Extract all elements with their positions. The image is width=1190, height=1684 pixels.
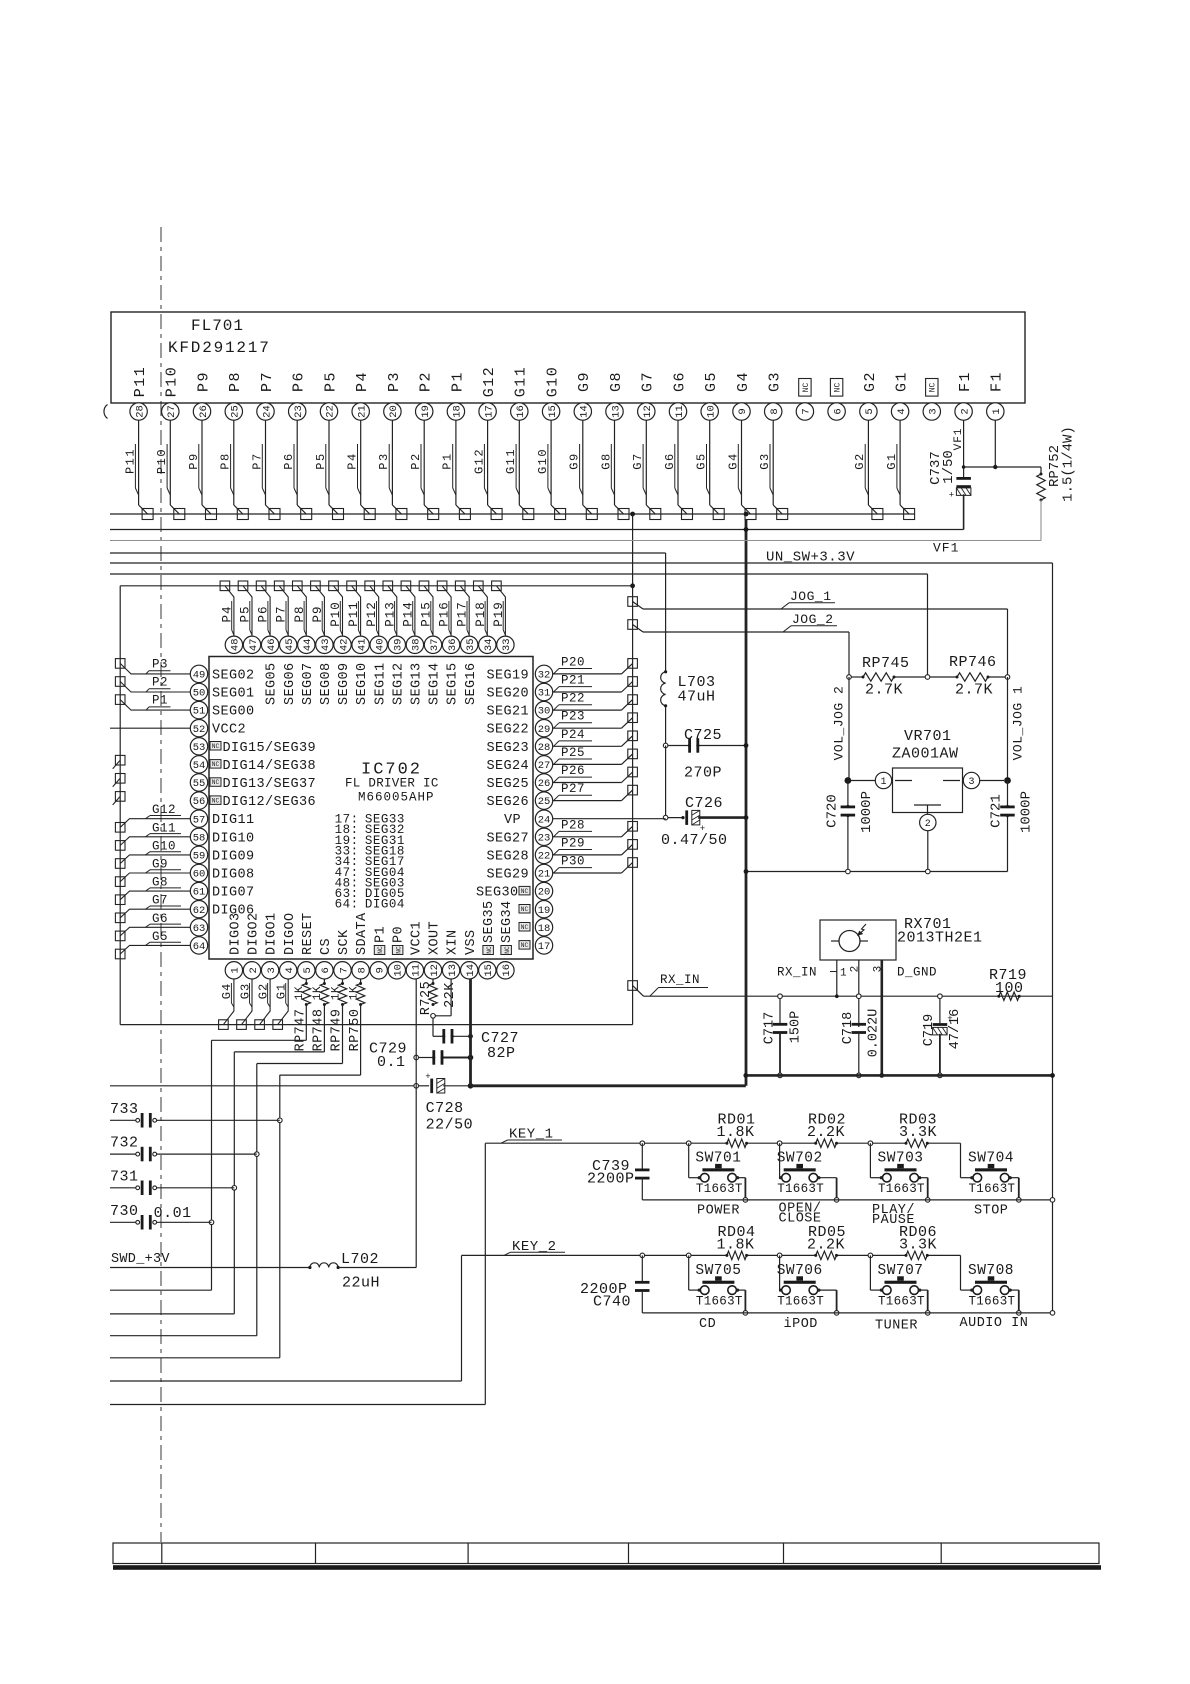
svg-text:P26: P26 bbox=[561, 764, 585, 778]
svg-text:VCC2: VCC2 bbox=[212, 723, 246, 738]
IC702 pin 58 DIG10 bbox=[190, 828, 254, 846]
capacitor C727 82P bbox=[433, 1018, 519, 1062]
net P3 to IC702 pin 49 bbox=[115, 657, 190, 674]
svg-text:P7: P7 bbox=[275, 605, 289, 622]
net P20 to IC702 pin 32 bbox=[553, 655, 638, 674]
net label RX_IN at connector bbox=[628, 973, 708, 996]
net G8 to IC702 pin 61 bbox=[115, 876, 190, 905]
svg-text:SEG28: SEG28 bbox=[486, 849, 529, 864]
svg-text:2.2K: 2.2K bbox=[807, 1124, 845, 1141]
svg-text:NC: NC bbox=[212, 761, 220, 768]
svg-text:NC: NC bbox=[521, 906, 529, 913]
svg-text:3: 3 bbox=[266, 967, 278, 973]
svg-text:12: 12 bbox=[429, 964, 441, 977]
IC702 pin 36 top bbox=[442, 636, 460, 705]
svg-text:12: 12 bbox=[642, 405, 654, 418]
IC702 pin 49 SEG02 bbox=[190, 665, 254, 683]
IC702 pin 23 SEG27 bbox=[486, 828, 552, 846]
IC702 pin 7 SCK bbox=[334, 929, 352, 979]
svg-text:730: 730 bbox=[110, 1203, 139, 1220]
IC702 pin 31 SEG20 bbox=[486, 683, 552, 701]
IC702 pin 16 SEG34 bbox=[497, 900, 515, 979]
IC702 pin 32 SEG19 bbox=[486, 665, 552, 683]
IC702 pin 54 DIG14/SEG38 bbox=[190, 756, 316, 774]
FL701 pin 6 NC bbox=[828, 379, 845, 421]
wire RP745/RP746 mid feed bus bbox=[110, 574, 928, 677]
FL701 pin 26 P9 bbox=[187, 371, 217, 520]
svg-text:55: 55 bbox=[193, 778, 206, 790]
key caption POWER bbox=[697, 1204, 740, 1219]
svg-text:1: 1 bbox=[991, 408, 1003, 414]
svg-text:DIG08: DIG08 bbox=[212, 868, 255, 883]
net P9 to IC702 pin 43 bbox=[311, 581, 325, 636]
svg-text:C720: C720 bbox=[825, 794, 841, 828]
svg-text:F1: F1 bbox=[957, 371, 974, 392]
IC702 pin 12 XOUT bbox=[424, 921, 442, 979]
net G3 to IC702 pin 2 bbox=[237, 979, 253, 1029]
svg-text:DIG11: DIG11 bbox=[212, 813, 255, 828]
FL701 pin 3 NC bbox=[923, 379, 940, 421]
wire C737 return bus bbox=[110, 527, 964, 532]
wire L703 to C726 bbox=[665, 746, 667, 818]
net JOG_2 bbox=[628, 612, 849, 677]
svg-text:20: 20 bbox=[388, 405, 400, 418]
svg-text:L702: L702 bbox=[341, 1251, 379, 1268]
svg-text:VOL_JOG 2: VOL_JOG 2 bbox=[832, 686, 847, 761]
svg-text:+: + bbox=[949, 491, 954, 501]
svg-text:1K: 1K bbox=[312, 986, 324, 1000]
svg-text:SDATA: SDATA bbox=[355, 912, 370, 955]
svg-text:NC: NC bbox=[486, 946, 493, 954]
svg-text:39: 39 bbox=[393, 638, 405, 651]
svg-text:P14: P14 bbox=[401, 601, 415, 627]
svg-text:82P: 82P bbox=[487, 1045, 516, 1062]
svg-text:3.3K: 3.3K bbox=[899, 1124, 937, 1141]
svg-text:RX_IN: RX_IN bbox=[777, 966, 817, 980]
svg-text:15: 15 bbox=[483, 964, 495, 977]
svg-text:T1663T: T1663T bbox=[969, 1182, 1016, 1196]
svg-text:2200P: 2200P bbox=[587, 1171, 635, 1188]
svg-text:P1: P1 bbox=[152, 694, 168, 708]
net P14 to IC702 pin 38 bbox=[401, 581, 415, 636]
svg-text:P5: P5 bbox=[239, 605, 253, 622]
svg-text:DIG13/SEG37: DIG13/SEG37 bbox=[223, 777, 317, 792]
svg-text:P10: P10 bbox=[329, 601, 343, 627]
svg-text:VCC1: VCC1 bbox=[410, 921, 425, 955]
FL701 pin 21 P4 bbox=[346, 371, 376, 520]
svg-text:G1: G1 bbox=[894, 371, 911, 392]
svg-text:29: 29 bbox=[538, 724, 551, 736]
IC702 pin 50 SEG01 bbox=[190, 683, 254, 701]
svg-text:P8: P8 bbox=[293, 605, 307, 622]
svg-text:C728: C728 bbox=[426, 1100, 464, 1117]
resistor RD04 1.8K bbox=[717, 1224, 756, 1260]
net label VOL_JOG 1 bbox=[1011, 686, 1026, 761]
svg-text:64:: 64: bbox=[335, 898, 359, 912]
svg-text:SEG29: SEG29 bbox=[486, 868, 529, 883]
svg-text:14: 14 bbox=[465, 964, 477, 977]
svg-text:TUNER: TUNER bbox=[875, 1319, 918, 1334]
svg-text:733: 733 bbox=[110, 1101, 139, 1118]
svg-text:G4: G4 bbox=[220, 983, 234, 999]
IC702 pin 8 SDATA bbox=[352, 912, 370, 979]
IC702 pin 60 DIG08 bbox=[190, 864, 254, 882]
wire VCC2 (IC702 pin 52) bbox=[110, 727, 190, 729]
svg-text:P19: P19 bbox=[492, 601, 506, 627]
svg-text:1: 1 bbox=[230, 967, 242, 973]
IC702 pin 53 DIG15/SEG39 bbox=[190, 738, 316, 756]
svg-text:1000P: 1000P bbox=[859, 791, 875, 833]
svg-text:G7: G7 bbox=[640, 371, 657, 392]
svg-text:38: 38 bbox=[411, 638, 423, 651]
svg-text:SEG14: SEG14 bbox=[428, 662, 443, 705]
svg-text:SEG09: SEG09 bbox=[337, 662, 352, 705]
FL701 pin 5 G2 bbox=[853, 371, 883, 520]
IC702 pin 46 top bbox=[261, 636, 279, 705]
svg-text:C721: C721 bbox=[989, 794, 1005, 828]
IC702 pin 24 VP bbox=[504, 810, 553, 828]
FL701 pin 22 P5 bbox=[314, 371, 344, 520]
capacitor C725 270P bbox=[663, 727, 748, 782]
key caption PLAY/ PAUSE bbox=[872, 1203, 915, 1228]
svg-text:35: 35 bbox=[465, 638, 477, 651]
net P8 to IC702 pin 44 bbox=[293, 581, 307, 636]
wire FL701 connector rail bbox=[110, 512, 915, 517]
IC702 pin 4 DIGOO bbox=[280, 912, 298, 979]
svg-text:25: 25 bbox=[230, 405, 242, 418]
svg-text:G3: G3 bbox=[238, 983, 252, 999]
svg-text:56: 56 bbox=[193, 796, 206, 808]
svg-text:0.01: 0.01 bbox=[154, 1205, 192, 1222]
svg-text:45: 45 bbox=[284, 638, 296, 651]
net SWD_+3V with inductor L702 22uH bbox=[110, 1251, 416, 1292]
resistor RD03 3.3K bbox=[899, 1112, 937, 1148]
IC702 pin 26 SEG25 bbox=[486, 774, 552, 792]
svg-text:2.7K: 2.7K bbox=[955, 682, 993, 699]
svg-text:POWER: POWER bbox=[697, 1204, 740, 1219]
svg-text:VF1: VF1 bbox=[933, 541, 959, 556]
net JOG_1 bbox=[628, 589, 1008, 677]
svg-text:DIG07: DIG07 bbox=[212, 886, 255, 901]
net G11 to IC702 pin 58 bbox=[115, 821, 190, 850]
svg-text:NC: NC bbox=[521, 942, 529, 949]
IC702 pin 55 DIG13/SEG37 bbox=[190, 774, 316, 792]
key caption OPEN/ CLOSE bbox=[779, 1202, 822, 1227]
IC702 pin 57 DIG11 bbox=[190, 810, 254, 828]
svg-text:P9: P9 bbox=[311, 605, 325, 622]
resistor RP745 2.7K bbox=[847, 655, 930, 699]
IC702 pin 56 DIG12/SEG36 bbox=[190, 792, 316, 810]
svg-text:2013TH2E1: 2013TH2E1 bbox=[897, 930, 983, 947]
IC702 pin 38 top bbox=[406, 636, 424, 705]
IC702 pin 43 top bbox=[316, 636, 334, 705]
FL701 pin 13 G8 bbox=[599, 371, 629, 520]
svg-text:P16: P16 bbox=[438, 601, 452, 627]
svg-text:15: 15 bbox=[547, 405, 559, 418]
IC702 pin 19 NC bbox=[519, 901, 553, 918]
svg-text:1000P: 1000P bbox=[1018, 791, 1034, 833]
svg-text:54: 54 bbox=[193, 760, 206, 772]
svg-text:63: 63 bbox=[193, 923, 206, 935]
wire IR ground rail thick bbox=[743, 1073, 1055, 1078]
svg-text:33: 33 bbox=[501, 638, 513, 651]
svg-text:1.8K: 1.8K bbox=[717, 1236, 755, 1253]
svg-text:SEG22: SEG22 bbox=[486, 723, 529, 738]
svg-text:50: 50 bbox=[193, 688, 206, 700]
IC702 pin 27 SEG24 bbox=[486, 756, 552, 774]
IC702 pin 10 P0 bbox=[388, 926, 406, 979]
key caption iPOD bbox=[784, 1317, 818, 1332]
capacitor C731 bbox=[110, 1168, 234, 1195]
svg-text:46: 46 bbox=[266, 638, 278, 651]
svg-text:2: 2 bbox=[959, 408, 971, 414]
wire VR701 ground rail bbox=[744, 869, 1008, 874]
wire VOL_JOG 1 vertical bbox=[1007, 677, 1009, 781]
FL701 pin 16 G11 bbox=[504, 366, 534, 520]
wire G4 thick vertical bus bbox=[745, 519, 748, 1086]
key caption TUNER bbox=[875, 1319, 918, 1334]
net G6 to IC702 pin 63 bbox=[115, 912, 190, 941]
IC702 pin 35 top bbox=[461, 636, 479, 705]
svg-text:34: 34 bbox=[483, 638, 495, 651]
svg-text:NC: NC bbox=[212, 743, 220, 750]
svg-text:SEG01: SEG01 bbox=[212, 687, 255, 702]
svg-text:R725: R725 bbox=[419, 981, 434, 1015]
net P24 to IC702 pin 28 bbox=[553, 728, 638, 747]
FL701 pin 28 P11 bbox=[123, 366, 153, 520]
svg-text:AUDIO IN: AUDIO IN bbox=[960, 1316, 1029, 1331]
IC702 pin 25 SEG26 bbox=[486, 792, 552, 810]
svg-text:SWD_+3V: SWD_+3V bbox=[111, 1252, 170, 1267]
svg-text:24: 24 bbox=[538, 814, 551, 826]
svg-text:SEG21: SEG21 bbox=[486, 705, 529, 720]
jog encoder VR701 ZA001AW bbox=[845, 728, 1011, 872]
wire VCC1 vertical bbox=[415, 979, 417, 1268]
svg-text:30: 30 bbox=[538, 706, 551, 718]
net P7 to IC702 pin 45 bbox=[274, 581, 288, 636]
svg-text:10: 10 bbox=[706, 405, 718, 418]
svg-text:270P: 270P bbox=[684, 765, 722, 782]
svg-text:RX_IN: RX_IN bbox=[660, 973, 700, 987]
svg-text:CS: CS bbox=[319, 938, 334, 955]
svg-text:P2: P2 bbox=[418, 371, 435, 392]
capacitor C721 1000P bbox=[989, 781, 1035, 872]
wire RX_IN line bbox=[644, 995, 1053, 997]
svg-text:6: 6 bbox=[320, 967, 332, 973]
svg-text:C719: C719 bbox=[922, 1014, 937, 1046]
svg-text:C717: C717 bbox=[762, 1012, 777, 1044]
svg-text:P8: P8 bbox=[227, 371, 244, 392]
svg-text:16: 16 bbox=[501, 964, 513, 977]
IC702 pin 39 top bbox=[388, 636, 406, 705]
svg-text:DIGO1: DIGO1 bbox=[265, 912, 280, 955]
svg-text:iPOD: iPOD bbox=[784, 1317, 818, 1332]
svg-text:VSS: VSS bbox=[464, 929, 479, 955]
svg-text:XIN: XIN bbox=[446, 929, 461, 955]
net P28 to IC702 pin 23 bbox=[553, 818, 638, 837]
key caption CD bbox=[699, 1317, 716, 1332]
svg-text:SEG25: SEG25 bbox=[486, 777, 529, 792]
svg-text:731: 731 bbox=[110, 1168, 139, 1185]
svg-text:2: 2 bbox=[248, 967, 260, 973]
capacitor C739 2200P bbox=[635, 1143, 650, 1200]
FL701 pin 15 G10 bbox=[536, 366, 566, 520]
net G9 to IC702 pin 60 bbox=[115, 858, 190, 887]
svg-text:F1: F1 bbox=[989, 371, 1006, 392]
net P6 to IC702 pin 46 bbox=[256, 581, 270, 636]
svg-text:19: 19 bbox=[538, 905, 551, 917]
svg-text:JOG_2: JOG_2 bbox=[792, 612, 834, 627]
svg-text:P15: P15 bbox=[420, 601, 434, 627]
IC702 pin 14 VSS bbox=[461, 929, 479, 979]
resistor RD06 3.3K bbox=[899, 1224, 937, 1260]
svg-text:23: 23 bbox=[538, 832, 551, 844]
net G10 to IC702 pin 59 bbox=[115, 839, 190, 868]
switch SW708 T1663T bbox=[961, 1263, 1022, 1315]
net P21 to IC702 pin 31 bbox=[553, 674, 638, 693]
svg-text:1K: 1K bbox=[330, 986, 342, 1000]
svg-text:G2: G2 bbox=[256, 983, 270, 999]
svg-text:G5: G5 bbox=[703, 371, 720, 392]
FL701 pin 24 P7 bbox=[250, 371, 280, 520]
wire KEY_2 riser bbox=[110, 1255, 462, 1381]
svg-text:T1663T: T1663T bbox=[878, 1182, 925, 1196]
svg-text:3: 3 bbox=[968, 777, 974, 788]
wire VOL_JOG 2 vertical bbox=[848, 677, 850, 781]
switch SW706 T1663T bbox=[777, 1255, 839, 1315]
IC702 pin 21 SEG29 bbox=[486, 864, 552, 882]
svg-text:STOP: STOP bbox=[974, 1204, 1008, 1219]
capacitor C733 bbox=[110, 1101, 280, 1128]
svg-text:DIG15/SEG39: DIG15/SEG39 bbox=[223, 741, 317, 756]
net P26 to IC702 pin 26 bbox=[553, 764, 638, 783]
net G1 to IC702 pin 4 bbox=[273, 979, 289, 1029]
net G12 to IC702 pin 57 bbox=[115, 803, 190, 832]
svg-text:0.47/50: 0.47/50 bbox=[661, 832, 728, 849]
net P19 to IC702 pin 33 bbox=[492, 581, 506, 636]
svg-text:13: 13 bbox=[447, 964, 459, 977]
svg-text:G12: G12 bbox=[481, 366, 498, 398]
svg-text:G11: G11 bbox=[513, 366, 530, 398]
svg-text:3.3K: 3.3K bbox=[899, 1236, 937, 1253]
wire R725 to XIN bbox=[435, 979, 451, 1016]
svg-text:P2: P2 bbox=[152, 676, 168, 690]
IC702 pin 20 SEG30 bbox=[476, 882, 553, 900]
svg-text:P4: P4 bbox=[354, 371, 371, 392]
svg-text:SEG08: SEG08 bbox=[319, 662, 334, 705]
key caption STOP bbox=[974, 1204, 1008, 1219]
svg-text:NC: NC bbox=[212, 797, 220, 804]
FL701 pin 25 P8 bbox=[219, 371, 249, 520]
IC702 pin 22 SEG28 bbox=[486, 846, 552, 864]
net P29 to IC702 pin 22 bbox=[553, 836, 638, 855]
svg-text:P9: P9 bbox=[195, 371, 212, 392]
svg-text:28: 28 bbox=[538, 742, 551, 754]
resistor RD02 2.2K bbox=[807, 1112, 846, 1148]
IC702 pin 2 DIGO2 bbox=[243, 912, 261, 979]
capacitor C719 47/16 electrolytic bbox=[922, 994, 963, 1078]
FL701 pin 20 P3 bbox=[377, 371, 407, 520]
svg-text:SEG15: SEG15 bbox=[446, 662, 461, 705]
svg-text:10: 10 bbox=[393, 964, 405, 977]
svg-text:DIG04: DIG04 bbox=[365, 898, 405, 912]
svg-text:SEG24: SEG24 bbox=[486, 759, 529, 774]
IC702 pin 17 NC bbox=[519, 937, 553, 954]
svg-text:732: 732 bbox=[110, 1135, 139, 1152]
svg-text:SEG20: SEG20 bbox=[486, 687, 529, 702]
svg-text:59: 59 bbox=[193, 851, 206, 863]
IC702 pin 9 P1 bbox=[370, 926, 388, 979]
svg-text:23: 23 bbox=[293, 405, 305, 418]
svg-text:SEG11: SEG11 bbox=[373, 662, 388, 705]
switch SW707 T1663T bbox=[870, 1255, 930, 1315]
svg-text:FL701: FL701 bbox=[191, 317, 244, 335]
net label VF1 bbox=[933, 541, 959, 556]
IC702 pin 41 top bbox=[352, 636, 370, 705]
svg-text:P27: P27 bbox=[561, 782, 585, 796]
svg-text:4: 4 bbox=[896, 408, 908, 414]
svg-text:9: 9 bbox=[737, 408, 749, 414]
IC702 pin 51 SEG00 bbox=[190, 701, 254, 719]
net P2 to IC702 pin 50 bbox=[115, 676, 190, 693]
net P1 to IC702 pin 51 bbox=[115, 694, 190, 711]
svg-text:P22: P22 bbox=[561, 692, 585, 706]
net P5 to IC702 pin 47 bbox=[238, 581, 252, 636]
net P16 to IC702 pin 36 bbox=[437, 581, 451, 636]
svg-text:31: 31 bbox=[538, 688, 551, 700]
IC702 pin 6 CS bbox=[316, 938, 334, 979]
svg-text:SEG07: SEG07 bbox=[301, 662, 316, 705]
svg-text:150P: 150P bbox=[788, 1011, 803, 1043]
resistor RP750 1K bbox=[280, 979, 365, 1075]
wire FL701 pin2 VF1 to C737 bbox=[953, 420, 1041, 469]
svg-text:100: 100 bbox=[995, 980, 1024, 997]
svg-text:8: 8 bbox=[356, 967, 368, 973]
switch SW705 T1663T bbox=[689, 1255, 748, 1315]
svg-text:42: 42 bbox=[338, 638, 350, 651]
svg-text:KFD291217: KFD291217 bbox=[168, 339, 271, 357]
svg-text:SEG23: SEG23 bbox=[486, 741, 529, 756]
svg-text:P29: P29 bbox=[561, 836, 585, 850]
svg-text:P0: P0 bbox=[391, 926, 406, 943]
FL701 pin 8 G3 bbox=[758, 371, 788, 520]
IC702 pin 30 SEG21 bbox=[486, 701, 552, 719]
svg-text:P11: P11 bbox=[132, 366, 149, 398]
switch SW702 T1663T bbox=[777, 1143, 839, 1202]
svg-text:5: 5 bbox=[302, 967, 314, 973]
wire KEY_2 return rail bbox=[642, 1311, 1054, 1316]
FL701 pin 7 NC bbox=[796, 379, 813, 421]
svg-text:P20: P20 bbox=[561, 655, 585, 669]
wire key ladder column 1 bbox=[110, 1040, 214, 1290]
svg-text:C725: C725 bbox=[684, 727, 722, 744]
IC702 pin 64 DIG bbox=[190, 937, 207, 954]
svg-text:G2: G2 bbox=[862, 371, 879, 392]
svg-text:DIG10: DIG10 bbox=[212, 831, 255, 846]
resistor RP746 2.7K bbox=[930, 654, 1010, 699]
net P22 to IC702 pin 30 bbox=[553, 692, 638, 711]
IC702 pin 40 top bbox=[370, 636, 388, 705]
svg-text:P28: P28 bbox=[561, 818, 585, 832]
svg-text:2.7K: 2.7K bbox=[865, 682, 903, 699]
svg-text:D_GND: D_GND bbox=[897, 966, 937, 980]
svg-text:T1663T: T1663T bbox=[696, 1182, 743, 1196]
svg-text:XOUT: XOUT bbox=[428, 921, 443, 955]
svg-text:58: 58 bbox=[193, 832, 206, 844]
svg-text:P25: P25 bbox=[561, 746, 585, 760]
svg-text:DIGO2: DIGO2 bbox=[247, 912, 262, 955]
svg-text:SEG27: SEG27 bbox=[486, 831, 529, 846]
